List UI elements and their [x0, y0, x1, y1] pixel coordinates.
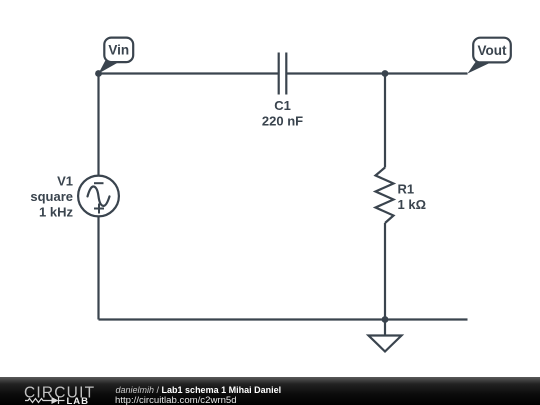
- svg-text:V1: V1: [57, 174, 73, 189]
- ground: [369, 320, 402, 352]
- svg-text:LAB: LAB: [67, 396, 90, 405]
- logo diode triangle: [52, 397, 59, 404]
- resistor R1: [376, 168, 394, 224]
- wire left vertical upper (Vin node to V1 top): [97, 74, 99, 177]
- svg-text:C1: C1: [274, 98, 291, 113]
- wire top rail left (Vin node to C1 left plate): [99, 72, 279, 74]
- svg-text:220 nF: 220 nF: [262, 114, 303, 129]
- wire top rail right (C1 right plate to Vout bend): [286, 72, 467, 74]
- wire right vertical upper (top node to R1 top): [384, 74, 386, 168]
- svg-text:http://circuitlab.com/c2wrn5d: http://circuitlab.com/c2wrn5d: [115, 395, 237, 405]
- node flag Vin: [99, 38, 134, 74]
- capacitor C1: [279, 53, 287, 95]
- node dot bottom: [382, 316, 389, 323]
- svg-text:square: square: [30, 189, 73, 204]
- svg-text:1 kHz: 1 kHz: [39, 205, 73, 220]
- svg-text:1 kΩ: 1 kΩ: [398, 197, 427, 212]
- wire left vertical lower (V1 bottom to bottom rail): [97, 217, 99, 320]
- svg-text:Vout: Vout: [478, 43, 507, 58]
- node dot top right: [382, 70, 389, 77]
- wire bottom rail: [99, 318, 468, 320]
- svg-text:danielmih / Lab1 schema 1 Miha: danielmih / Lab1 schema 1 Mihai Daniel: [116, 385, 282, 395]
- node dot Vin: [95, 70, 102, 77]
- logo resistor squiggle and diode: [25, 397, 65, 404]
- node flag Vout: [468, 38, 511, 74]
- wire right vertical lower (R1 bottom to bottom node): [384, 223, 386, 320]
- footer bar: [0, 377, 540, 405]
- voltage source V1: [78, 176, 119, 217]
- svg-text:Vin: Vin: [108, 43, 129, 58]
- svg-text:R1: R1: [398, 182, 415, 197]
